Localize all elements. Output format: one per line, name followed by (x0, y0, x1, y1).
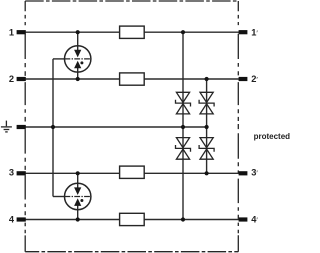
svg-text:4′: 4′ (251, 215, 258, 225)
svg-text:3′: 3′ (251, 168, 258, 178)
terminal 2' (239, 77, 248, 81)
TVS suppressor diode top-left (176, 92, 191, 114)
terminal 2 (17, 77, 26, 81)
ground symbol (1, 121, 12, 132)
wire GDT top left electrode stub (53, 58, 65, 60)
TVS suppressor diode top-right (199, 92, 214, 114)
resistor line 4 (120, 213, 145, 225)
junction line4 / TVS column left (181, 217, 185, 221)
wire line 4 (25, 219, 239, 221)
terminal 4 (17, 217, 26, 221)
svg-text:1: 1 (9, 27, 14, 37)
gas discharge tube top (three-electrode arrester) (65, 46, 91, 72)
wire ground electrode vertical (52, 59, 54, 197)
wire line 3 (25, 172, 239, 174)
terminal 1 (17, 30, 26, 34)
wire GDT bottom stem lower (77, 205, 79, 219)
device outline dashed border right (237, 1, 239, 252)
junction ground bus / TVS column left (181, 125, 185, 129)
wire ground bus horizontal (25, 126, 206, 128)
junction line3 / TVS column right (205, 171, 209, 175)
resistor line 3 (120, 166, 145, 178)
gas discharge tube bottom (three-electrode arrester) (65, 183, 91, 209)
junction line4 / GDT column (76, 217, 80, 221)
wire line 1 (25, 31, 239, 33)
terminal 1' (239, 30, 248, 34)
svg-text:protected: protected (254, 132, 290, 141)
device outline dashed border top (25, 0, 238, 2)
svg-text:4: 4 (9, 214, 15, 224)
wire TVS column right (206, 79, 208, 173)
terminal 3 (17, 171, 26, 175)
resistor line 2 (120, 73, 145, 85)
wire GDT top stem lower (77, 68, 79, 79)
TVS suppressor diode bottom-left (176, 138, 191, 160)
junction line2 / GDT column (76, 77, 80, 81)
terminal 4' (239, 217, 248, 221)
wire GDT bottom left electrode stub (53, 196, 65, 198)
resistor line 1 (120, 26, 145, 38)
junction ground bus / TVS column right (205, 125, 209, 129)
TVS suppressor diode bottom-right (199, 138, 214, 160)
junction line1 / TVS column left (181, 30, 185, 34)
junction line1 / GDT column (76, 30, 80, 34)
junction ground bus / ground electrode (51, 125, 55, 129)
terminal 3' (239, 171, 248, 175)
wire GDT top stem upper (77, 32, 79, 50)
svg-text:3: 3 (9, 167, 14, 177)
wire line 2 (25, 78, 239, 80)
device outline dashed border left (24, 1, 26, 252)
terminal ground (17, 125, 26, 129)
junction line3 / GDT column (76, 171, 80, 175)
junction line2 / TVS column right (205, 77, 209, 81)
wire GDT bottom stem upper (77, 173, 79, 188)
wire TVS column left (182, 32, 184, 219)
device outline dashed border bottom (25, 251, 238, 253)
svg-text:1′: 1′ (251, 27, 258, 37)
svg-text:2: 2 (9, 74, 14, 84)
svg-text:2′: 2′ (251, 74, 258, 84)
